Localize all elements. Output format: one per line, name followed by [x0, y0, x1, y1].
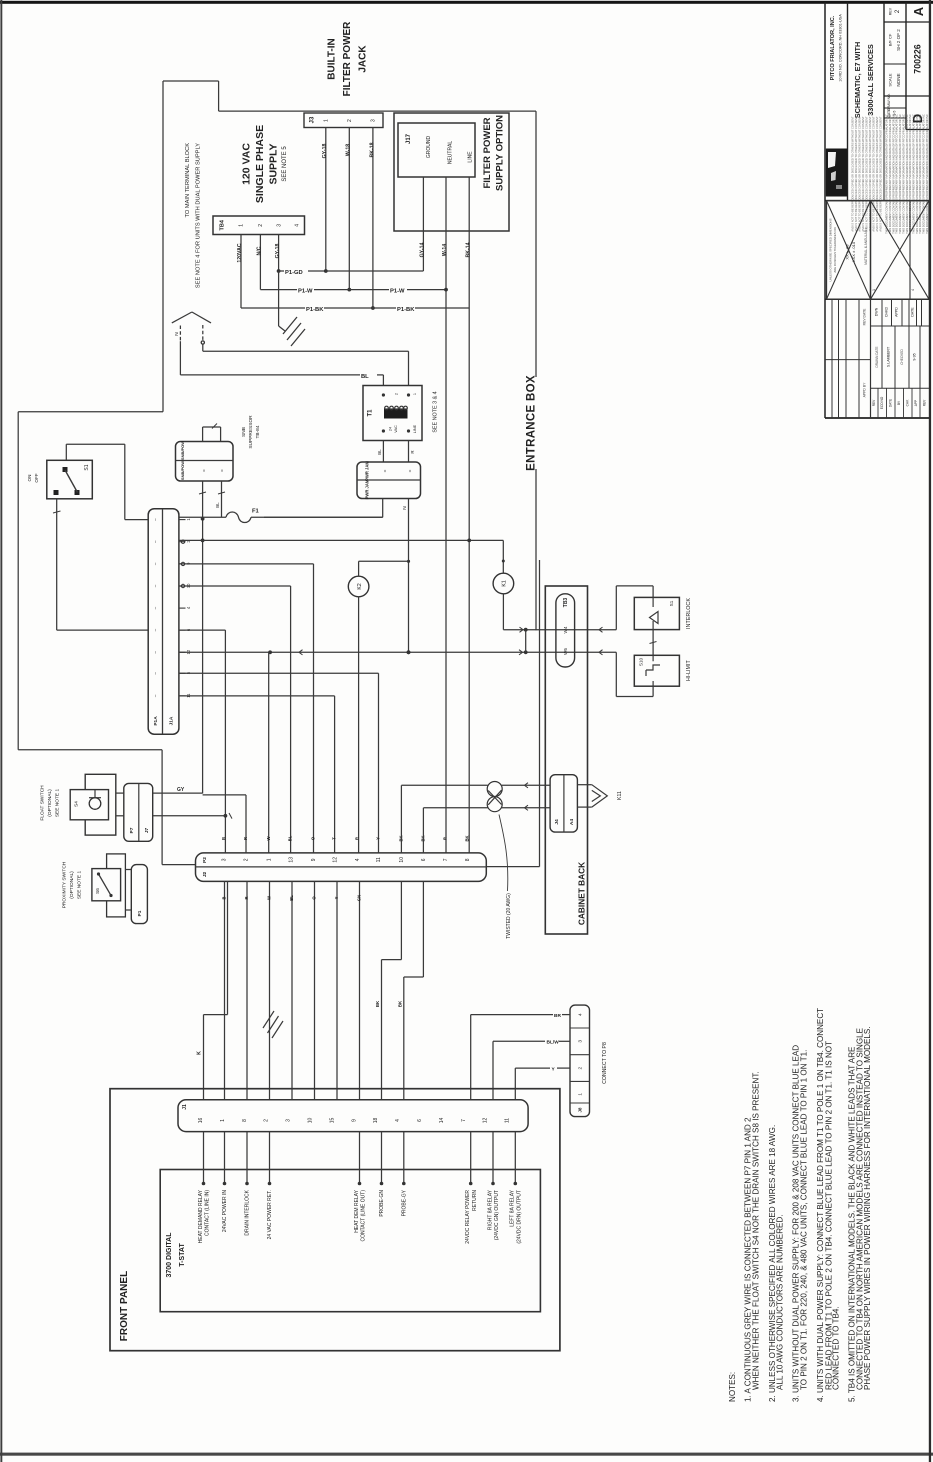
svg-text:NEUTRAL: NEUTRAL: [448, 141, 454, 165]
svg-text:INTERLOCK: INTERLOCK: [686, 598, 692, 629]
svg-text:SCHEMATIC, E7 WITH: SCHEMATIC, E7 WITH: [853, 42, 862, 118]
notes list: [728, 1008, 872, 1402]
svg-text:=: =: [382, 469, 387, 472]
controller pin labels: [198, 1189, 523, 1243]
svg-text:TWISTED (20 AWG): TWISTED (20 AWG): [506, 893, 512, 939]
wire P2-3 down jog K: [196, 881, 227, 1099]
connector J1: [178, 1100, 528, 1132]
svg-text:BL: BL: [289, 895, 294, 901]
revision history strip: [872, 388, 927, 418]
svg-text:1: 1: [413, 393, 417, 395]
wire P1A row6 to P2-3: [179, 630, 227, 853]
vertical link TB3 rows: [525, 630, 527, 653]
svg-text:12: 12: [483, 1118, 489, 1124]
svg-text:BL: BL: [377, 449, 382, 455]
svg-text:K1: K1: [502, 580, 508, 587]
chassis ground: [279, 271, 305, 346]
wire PWR out to fuse line: [264, 499, 383, 518]
svg-text:7: 7: [443, 858, 449, 861]
svg-text:K2: K2: [357, 583, 363, 590]
wire interlock to S10: [650, 630, 657, 656]
svg-text:J1: J1: [182, 1104, 188, 1110]
svg-text:CHK: CHK: [906, 399, 910, 407]
svg-text:1: 1: [872, 289, 876, 291]
svg-text:CONTACT (LINE OUT): CONTACT (LINE OUT): [361, 1190, 367, 1242]
svg-text:K11: K11: [617, 791, 623, 800]
svg-text:REV: REV: [889, 7, 893, 15]
connector P8: [570, 1005, 590, 1117]
svg-text:GY-18: GY-18: [275, 244, 281, 259]
svg-text:SEE NOTE 3 & 4: SEE NOTE 3 & 4: [432, 391, 438, 432]
svg-text:GROUND: GROUND: [426, 136, 432, 159]
label ENTRANCE BOX: [525, 375, 537, 471]
svg-text:18: 18: [373, 1118, 379, 1124]
wire S10 bottom loop: [616, 652, 653, 696]
svg-text:HEAT DEM RELAY: HEAT DEM RELAY: [354, 1189, 360, 1232]
svg-text:R: R: [410, 450, 415, 453]
svg-text:GY-18: GY-18: [322, 144, 328, 159]
svg-text:CONNECTED TO TB4.: CONNECTED TO TB4.: [831, 1306, 840, 1390]
svg-text:BK-18: BK-18: [369, 142, 375, 157]
terminal block TB4: [213, 216, 305, 235]
svg-text:3: 3: [286, 1119, 292, 1122]
svg-text:RETURN: RETURN: [472, 1190, 478, 1211]
svg-text:AND IS NOT TO BE REPRODUCED CO: AND IS NOT TO BE REPRODUCED COPIED OR DI…: [871, 116, 875, 232]
svg-text:SEE NOTE 1: SEE NOTE 1: [77, 871, 83, 900]
svg-text:S4: S4: [74, 801, 80, 807]
svg-text:BL: BL: [288, 835, 293, 841]
svg-text:4: 4: [355, 858, 361, 861]
svg-text:10 RD NO. CONCORD, NH 03301-US: 10 RD NO. CONCORD, NH 03301-USA: [838, 14, 842, 82]
svg-text:P1-W: P1-W: [298, 289, 313, 295]
svg-text:7: 7: [461, 1119, 467, 1122]
company logo: [826, 149, 848, 197]
wire K1 bottom: [503, 594, 616, 633]
svg-text:XX ± .03: XX ± .03: [844, 244, 849, 260]
svg-text:BL/W: BL/W: [547, 1040, 560, 1046]
svg-text:12: 12: [332, 857, 338, 863]
svg-text:DRAWN DATE: DRAWN DATE: [875, 346, 879, 367]
label TO MAIN TERMINAL BLOCK SEE NOTE 4: [185, 143, 202, 288]
svg-text:R: R: [442, 837, 447, 840]
svg-text:P1-BK: P1-BK: [306, 307, 324, 313]
svg-text:ON: ON: [27, 475, 32, 482]
svg-text:=: =: [407, 469, 412, 472]
finish block crossed: [871, 201, 930, 300]
svg-text:6: 6: [417, 1119, 423, 1122]
terminal block TB3: [556, 594, 575, 667]
wire GY-14: [420, 177, 426, 271]
svg-text:SEE NOTE 1: SEE NOTE 1: [55, 789, 61, 818]
wire labels above P2: [221, 835, 470, 841]
wire P8-3 BL/W: [493, 1040, 570, 1100]
label HI-LIMIT: [686, 660, 692, 682]
svg-text:P1-W: P1-W: [390, 289, 405, 295]
wire TB4-1 120VAC: [237, 235, 243, 309]
svg-text:1: 1: [578, 1093, 584, 1096]
wires P2 down to J1: [222, 881, 362, 1099]
svg-text:Y: Y: [376, 837, 381, 840]
wire P1A row4 to P2-13: [179, 586, 291, 853]
svg-text:SUPPLY OPTION: SUPPLY OPTION: [495, 115, 506, 191]
svg-text:11: 11: [505, 1118, 511, 1123]
svg-text:24: 24: [388, 427, 392, 431]
svg-text:W: W: [267, 896, 272, 900]
svg-text:2: 2: [258, 224, 264, 227]
svg-text:TB4: TB4: [219, 219, 225, 230]
svg-text:4: 4: [395, 1119, 401, 1122]
svg-text:9: 9: [351, 1119, 357, 1122]
wire P2-6 down jog: [397, 881, 423, 1099]
wire SNB right pin: [215, 481, 225, 517]
svg-text:4: 4: [295, 224, 301, 227]
wire TB4-2 NC: [257, 235, 263, 290]
float switch S4: [70, 774, 116, 835]
wire W-14: [442, 177, 448, 853]
svg-text:N: N: [174, 332, 180, 336]
wire TB4-3 GY-18: [275, 235, 281, 273]
svg-text:APPD BY: APPD BY: [863, 382, 867, 397]
svg-text:SNB/POW: SNB/POW: [180, 461, 185, 480]
cabinet back panel: [545, 586, 587, 934]
svg-text:BR: BR: [554, 1013, 561, 1019]
svg-text:GY-14: GY-14: [420, 243, 426, 258]
wires J1 to controller: [202, 1132, 517, 1186]
svg-text:CONTACT (LINE IN): CONTACT (LINE IN): [205, 1190, 211, 1236]
svg-text:SINGLE PHASE: SINGLE PHASE: [254, 125, 266, 203]
wire J7 pin1 grey: [153, 787, 203, 793]
svg-text:8: 8: [242, 1119, 248, 1122]
svg-text:120VAC: 120VAC: [237, 243, 243, 262]
svg-text:SEE NOTE 4 FOR UNITS WITH DUAL: SEE NOTE 4 FOR UNITS WITH DUAL POWER SUP…: [195, 143, 201, 288]
chassis ground drain interlock: [263, 1011, 283, 1038]
sheet cell: [887, 29, 901, 87]
label INTERLOCK: [686, 598, 692, 629]
svg-text:WHEN NEITHER THE FLOAT SWITCH: WHEN NEITHER THE FLOAT SWITCH S4 NOR THE…: [752, 1071, 761, 1390]
svg-text:P1-BK: P1-BK: [397, 307, 415, 313]
svg-text:DRAW NO.: DRAW NO.: [887, 93, 891, 110]
svg-text:24VAC POWER IN: 24VAC POWER IN: [222, 1190, 228, 1233]
label BUILT-IN FILTER POWER JACK: [326, 21, 368, 97]
wire GY-18: [322, 128, 328, 272]
svg-text:P1-GD: P1-GD: [285, 270, 303, 276]
svg-text:BK: BK: [464, 835, 469, 841]
svg-text:3300-ALL SERVICES: 3300-ALL SERVICES: [866, 44, 875, 116]
svg-text:DRAIN INTERLOCK: DRAIN INTERLOCK: [245, 1189, 251, 1235]
switch S1: [27, 460, 92, 499]
wire P1A row3 to P2-9: [179, 564, 314, 853]
wire BK-18: [369, 128, 375, 310]
svg-text:UNLESS OTHERWISE SPECIFIED DIM: UNLESS OTHERWISE SPECIFIED DIMENSIONS: [828, 218, 832, 281]
svg-text:W: W: [266, 836, 271, 840]
svg-text:B: B: [221, 837, 226, 840]
svg-text:10: 10: [399, 857, 405, 863]
svg-text:15: 15: [329, 1118, 335, 1124]
svg-text:FLOAT SWITCH: FLOAT SWITCH: [40, 785, 46, 821]
svg-text:(24VDC GN) OUTPUT: (24VDC GN) OUTPUT: [494, 1190, 500, 1240]
svg-text:TO PIN 2 ON T1. FOR 220, 240,: TO PIN 2 ON T1. FOR 220, 240, & 480 VAC …: [799, 1050, 808, 1390]
svg-text:RIGHT 8A RELAY: RIGHT 8A RELAY: [487, 1189, 493, 1230]
svg-text:P1A: P1A: [153, 716, 159, 726]
drawing number 700226: [912, 44, 922, 73]
svg-text:(OPTIONAL): (OPTIONAL): [47, 789, 53, 817]
drawing title SCHEMATIC E7 WITH 3300-ALL SERVICES: [853, 42, 875, 118]
svg-text:DATE: DATE: [911, 307, 915, 317]
svg-text:W-14: W-14: [442, 244, 448, 256]
proprietary fine print: [850, 114, 929, 234]
svg-text:XXX ± .010: XXX ± .010: [851, 241, 856, 262]
svg-text:4: 4: [578, 1013, 584, 1016]
label CONNECT TO P8: [602, 1042, 608, 1084]
wire L to T1: [203, 344, 409, 386]
svg-text:S.LAMBERT: S.LAMBERT: [887, 346, 891, 367]
svg-text:DWN: DWN: [875, 307, 879, 316]
svg-text:B: B: [222, 896, 227, 899]
wire P1A row8 to P2-11: [179, 673, 379, 853]
svg-text:16: 16: [198, 1118, 204, 1124]
wire N from PWR switch: [402, 499, 410, 655]
svg-text:(OPTIONAL): (OPTIONAL): [69, 871, 75, 899]
fuse F1: [179, 509, 383, 523]
svg-text:(24VDC DRN) OUTPUT: (24VDC DRN) OUTPUT: [516, 1190, 522, 1244]
approval cells: [871, 299, 930, 388]
svg-text:1: 1: [239, 224, 245, 227]
svg-text:3: 3: [578, 1040, 584, 1043]
svg-text:Y: Y: [334, 896, 339, 899]
label TWISTED 20 AWG: [499, 815, 512, 939]
svg-text:2: 2: [264, 1119, 270, 1122]
svg-text:BL: BL: [215, 502, 220, 508]
label SNB SUPPRESSOR TB-84: [241, 415, 261, 449]
svg-text:REV DATE: REV DATE: [863, 308, 867, 325]
svg-text:LEFT 8A RELAY: LEFT 8A RELAY: [510, 1189, 516, 1226]
svg-text:MATERIAL & ANGULAR ±: MATERIAL & ANGULAR ±: [864, 227, 868, 265]
svg-text:CABINET BACK: CABINET BACK: [576, 862, 586, 925]
connector J7: [116, 783, 153, 841]
entrance box boundary: [18, 81, 536, 865]
svg-text:J4: J4: [554, 819, 560, 825]
svg-text:TB-84: TB-84: [255, 425, 261, 438]
svg-text:J7: J7: [144, 828, 150, 834]
revision table: [825, 299, 871, 418]
svg-text:LINE: LINE: [468, 151, 474, 163]
supply break chevron: [172, 312, 211, 344]
wire interlock top loop: [616, 586, 653, 630]
relay coil K1: [493, 540, 514, 593]
svg-text:3: 3: [371, 119, 377, 122]
svg-text:TB3: TB3: [563, 598, 569, 608]
connector J4 A4: [550, 775, 577, 832]
wire S1 to P1A pin1: [66, 444, 148, 519]
svg-text:GN: GN: [357, 895, 362, 901]
svg-text:BK-14: BK-14: [465, 242, 471, 257]
svg-text:BL: BL: [361, 374, 369, 380]
svg-text:ECO NO: ECO NO: [880, 396, 884, 409]
svg-text:700226: 700226: [912, 44, 922, 73]
svg-text:VAC: VAC: [394, 425, 398, 433]
wire K2 bottom to P2-4: [358, 597, 360, 853]
connector P1A J1A: [148, 509, 191, 735]
svg-text:NOTES:: NOTES:: [728, 1372, 737, 1402]
svg-text:2: 2: [244, 858, 250, 861]
svg-text:9: 9: [311, 858, 317, 861]
svg-text:2: 2: [578, 1066, 584, 1069]
size cell D: [887, 93, 925, 123]
wire N to T1: [180, 341, 383, 385]
svg-text:CHECKED: CHECKED: [900, 349, 904, 365]
connector J17: [398, 123, 475, 177]
svg-text:2: 2: [347, 119, 353, 122]
svg-text:3: 3: [276, 224, 282, 227]
svg-text:J17: J17: [406, 133, 412, 144]
wire P1-W: [260, 288, 448, 295]
svg-text:THIS DOCUMENT CONTAINS PROPRIE: THIS DOCUMENT CONTAINS PROPRIETARY INFOR…: [925, 114, 929, 234]
svg-text:F1: F1: [252, 509, 260, 515]
svg-text:13: 13: [288, 857, 294, 863]
svg-text:=: =: [201, 469, 206, 472]
svg-text:W4: W4: [563, 626, 568, 633]
label 120 VAC SINGLE PHASE SUPPLY: [241, 125, 288, 203]
svg-text:N: N: [402, 506, 408, 510]
wire J7 pin2: [153, 813, 232, 819]
wire neutral row: [179, 650, 616, 655]
svg-text:ENTRANCE BOX: ENTRANCE BOX: [525, 375, 537, 471]
svg-text:GY: GY: [177, 787, 185, 793]
svg-text:APPD: APPD: [895, 307, 899, 317]
label SEE NOTE 3 AND 4: [432, 391, 438, 432]
svg-text:6: 6: [421, 858, 427, 861]
coil K11: [577, 785, 622, 807]
svg-text:11: 11: [376, 857, 382, 862]
svg-text:DATE: DATE: [889, 399, 893, 407]
svg-text:W6: W6: [563, 648, 568, 655]
svg-text:ARE IN INCHES TOLERANCES ON: ARE IN INCHES TOLERANCES ON: [833, 227, 837, 272]
svg-text:SUPPRESSOR: SUPPRESSOR: [248, 415, 254, 449]
svg-text:SEE NOTE 5: SEE NOTE 5: [282, 146, 288, 182]
svg-text:W-18: W-18: [346, 144, 352, 156]
svg-text:4: 4: [911, 289, 915, 291]
svg-text:R: R: [243, 837, 248, 840]
svg-text:A: A: [911, 6, 926, 16]
transformer T1: [363, 386, 422, 441]
svg-text:ALL 10 AWG CONDUCTORS ARE NUMB: ALL 10 AWG CONDUCTORS ARE NUMBERED.: [775, 1214, 784, 1390]
twisted pair wires: [401, 782, 550, 853]
front panel box: [110, 1089, 560, 1351]
proximity switch S6: [92, 854, 125, 917]
svg-text:9-95: 9-95: [913, 353, 917, 360]
svg-text:J8: J8: [577, 1107, 582, 1112]
label PROXIMITY SWITCH OPTIONAL: [62, 861, 83, 908]
wire P8-2 Y: [515, 1067, 570, 1100]
svg-text:SUPPLY: SUPPLY: [268, 143, 280, 184]
wire W-18: [346, 128, 352, 292]
svg-text:T1: T1: [368, 409, 374, 417]
svg-text:S1: S1: [84, 464, 90, 470]
label FRONT PANEL: [119, 1271, 130, 1341]
svg-text:T-STAT: T-STAT: [179, 1243, 186, 1267]
svg-text:120 VAC: 120 VAC: [241, 143, 253, 185]
wire cabinet riser: [487, 560, 540, 867]
svg-text:BUILT-IN: BUILT-IN: [326, 38, 337, 79]
svg-text:FRONT PANEL: FRONT PANEL: [119, 1271, 130, 1341]
wire BK-14: [465, 177, 471, 853]
svg-text:OFF: OFF: [34, 473, 39, 482]
revision cell A: [889, 6, 926, 16]
controller box 3700 DIGITAL T-STAT: [160, 1170, 540, 1312]
svg-text:REV: REV: [923, 399, 927, 406]
svg-text:SCALE: SCALE: [887, 73, 892, 86]
title block frame: [825, 2, 929, 418]
svg-text:AND IS NOT TO BE REPRODUCED CO: AND IS NOT TO BE REPRODUCED COPIED OR DI…: [854, 116, 858, 232]
filter power supply option box: [394, 113, 509, 231]
wire SNB left pin: [199, 481, 206, 794]
svg-text:NONE: NONE: [896, 73, 901, 86]
svg-text:SH 2 OF 2: SH 2 OF 2: [896, 29, 901, 51]
svg-text:J3: J3: [310, 116, 316, 123]
wire S1 return: [53, 499, 148, 630]
svg-text:BK: BK: [375, 1000, 380, 1007]
svg-text:J1A: J1A: [169, 716, 175, 725]
svg-text:R: R: [355, 837, 360, 840]
wire P2-10 down jog: [375, 881, 401, 1099]
svg-text:BK: BK: [397, 1000, 402, 1007]
svg-text:CHKD: CHKD: [885, 307, 889, 318]
connector P2 J2: [196, 853, 487, 882]
svg-text:TO MAIN TERMINAL BLOCK: TO MAIN TERMINAL BLOCK: [185, 143, 191, 218]
svg-text:K: K: [196, 1051, 202, 1055]
svg-text:HI-LIMIT: HI-LIMIT: [686, 660, 692, 682]
svg-text:3: 3: [222, 858, 228, 861]
wire P1A row9 to P2-12: [179, 696, 335, 853]
svg-text:1: 1: [220, 1119, 226, 1122]
svg-text:A4: A4: [569, 819, 575, 825]
svg-text:14: 14: [439, 1118, 445, 1124]
power switch PWR JAM: [357, 461, 421, 500]
svg-text:FILTER POWER: FILTER POWER: [342, 21, 353, 97]
svg-text:B/F CF: B/F CF: [887, 33, 892, 46]
svg-text:N/C: N/C: [257, 246, 263, 255]
svg-text:J2: J2: [202, 872, 208, 878]
company name PITCO: [830, 14, 842, 82]
svg-text:=: =: [219, 469, 224, 472]
svg-text:HEAT DEMAND RELAY: HEAT DEMAND RELAY: [198, 1189, 204, 1243]
svg-text:1: 1: [266, 858, 272, 861]
svg-text:24VDC RELAY POWER: 24VDC RELAY POWER: [465, 1190, 471, 1244]
interlock switch S2: [634, 597, 679, 629]
svg-text:PROBE-GN: PROBE-GN: [379, 1190, 385, 1217]
wire P1-GD: [279, 269, 424, 276]
svg-text:CONNECT TO P8: CONNECT TO P8: [602, 1042, 608, 1084]
svg-text:PHASE POWER SUPPLY WIRES IN PO: PHASE POWER SUPPLY WIRES IN POWER WIRING…: [863, 1026, 872, 1390]
svg-text:S1: S1: [669, 600, 674, 606]
wire P8-4 BR: [471, 1013, 570, 1100]
svg-text:8: 8: [465, 858, 471, 861]
svg-text:AND IS NOT TO BE REPRODUCED CO: AND IS NOT TO BE REPRODUCED COPIED OR DI…: [857, 116, 861, 232]
svg-text:PROBE-GY: PROBE-GY: [401, 1189, 407, 1216]
svg-text:PWR JAM: PWR JAM: [364, 461, 369, 481]
svg-text:P1: P1: [137, 910, 143, 916]
tolerance block crossed: [827, 201, 871, 300]
svg-text:P7: P7: [129, 827, 135, 833]
svg-text:T: T: [332, 837, 337, 840]
svg-text:10: 10: [307, 1118, 313, 1124]
relay coil K2: [348, 561, 408, 597]
wire P2-1 up: [268, 652, 270, 853]
svg-text:FILTER POWER: FILTER POWER: [482, 117, 493, 188]
svg-text:JACK: JACK: [357, 45, 368, 73]
label FLOAT SWITCH OPTIONAL: [40, 785, 61, 821]
wire P2-2 up jog: [203, 795, 246, 853]
